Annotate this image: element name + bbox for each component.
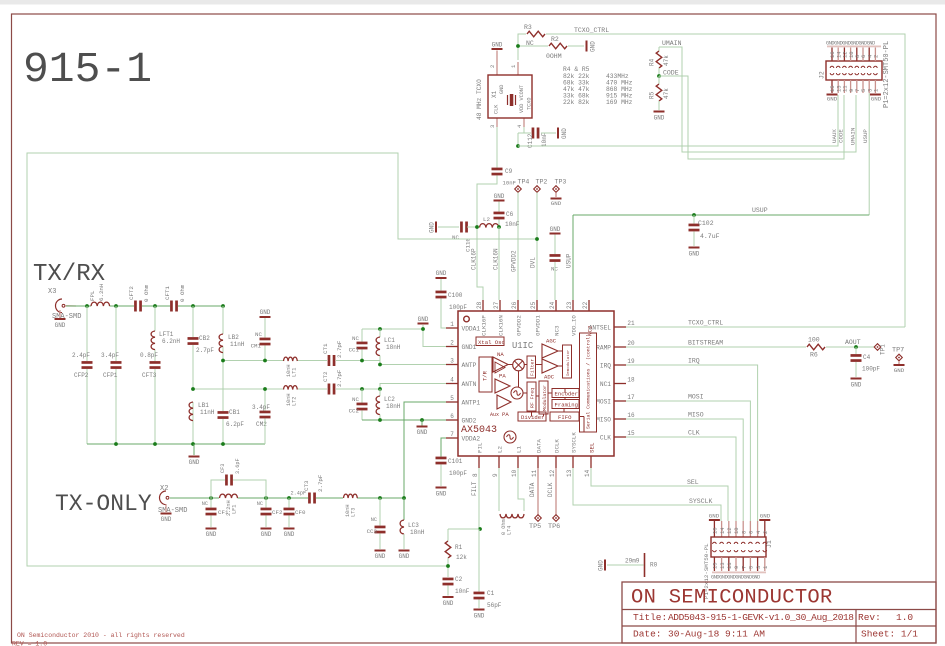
svg-text:LC3: LC3 (408, 522, 419, 529)
capacitor CFT1 (170, 301, 173, 312)
svg-text:LT2: LT2 (292, 397, 298, 406)
svg-text:18: 18 (627, 377, 635, 384)
svg-text:29m9: 29m9 (625, 558, 640, 565)
svg-text:2.7pF: 2.7pF (336, 369, 343, 387)
capacitor CB1 (218, 411, 229, 414)
capacitor CT3 series (308, 493, 311, 504)
svg-text:2.7pF: 2.7pF (336, 340, 343, 358)
capacitor CT2 (328, 384, 331, 395)
svg-text:GND: GND (709, 513, 720, 520)
svg-text:0 Ohm: 0 Ohm (143, 284, 150, 302)
svg-text:NC: NC (257, 501, 263, 507)
svg-text:GND: GND (189, 459, 200, 466)
IC internal demodulator (563, 345, 572, 378)
wire TX/RX input row (66, 305, 91, 307)
svg-text:17: 17 (627, 394, 635, 401)
ground below TP3 (555, 193, 557, 198)
svg-text:GND: GND (436, 491, 447, 498)
inductor LB2 (219, 334, 223, 353)
svg-text:11nH: 11nH (230, 341, 245, 348)
IC U1 AX5043 body (458, 311, 614, 456)
svg-text:0.8pF: 0.8pF (140, 352, 158, 359)
svg-text:UMAIN: UMAIN (850, 127, 857, 145)
svg-text:12k: 12k (456, 554, 467, 561)
svg-text:16: 16 (627, 412, 635, 419)
ground below rail (193, 444, 195, 455)
svg-text:NC: NC (255, 331, 262, 338)
svg-text:CLK16N: CLK16N (498, 315, 505, 336)
svg-text:L1: L1 (516, 446, 523, 453)
svg-text:CC3: CC3 (367, 528, 378, 535)
svg-text:C1: C1 (487, 590, 495, 597)
svg-text:LT1: LT1 (292, 368, 298, 377)
svg-text:DCLK: DCLK (554, 439, 561, 453)
svg-text:RAMP: RAMP (596, 344, 611, 351)
wire UAUX to J2 (518, 95, 838, 146)
svg-text:AGC: AGC (546, 338, 557, 345)
svg-text:ANTP: ANTP (462, 362, 477, 369)
IC internal FIFO block (550, 412, 579, 421)
crystal inside X1 (507, 95, 509, 105)
wire ANTN row (balun) (193, 388, 283, 390)
svg-text:VDD VCONT: VDD VCONT (519, 85, 525, 113)
svg-text:11nH: 11nH (200, 409, 215, 416)
svg-text:12: 12 (726, 527, 733, 534)
capacitor C6 (498, 202, 500, 212)
svg-text:UMAIN: UMAIN (662, 40, 682, 47)
svg-text:LT4: LT4 (507, 526, 513, 535)
IC internal modulator block (539, 381, 548, 414)
capacitor CM2 (264, 389, 266, 411)
svg-text:Title:: Title: (633, 612, 667, 623)
resistor R5 (658, 76, 660, 84)
svg-text:GND: GND (689, 251, 700, 258)
svg-text:26: 26 (511, 301, 518, 309)
svg-text:9: 9 (733, 566, 740, 569)
svg-text:7: 7 (740, 566, 747, 569)
ground below C102 (689, 247, 700, 249)
capacitor CFT2 (134, 301, 137, 312)
svg-text:Demodulator: Demodulator (566, 349, 571, 376)
ground below GND2 rail (421, 420, 423, 426)
svg-text:LC1: LC1 (384, 337, 395, 344)
wire ANTP1 to TX-ONLY (404, 402, 446, 498)
svg-text:P1=2x12-SMT50-PL: P1=2x12-SMT50-PL (883, 41, 891, 108)
svg-text:CF1: CF1 (218, 509, 229, 516)
svg-text:CFT2: CFT2 (128, 286, 135, 300)
svg-text:47k: 47k (663, 55, 670, 66)
svg-text:18nH: 18nH (410, 529, 425, 536)
svg-text:FILT: FILT (471, 481, 478, 496)
svg-text:10nF: 10nF (505, 221, 520, 228)
svg-text:CF2: CF2 (272, 509, 283, 516)
svg-text:LF1: LF1 (232, 505, 238, 514)
wire ANTP row to pin 3 (336, 361, 446, 365)
wire MOSI (626, 401, 750, 521)
svg-text:3.6pF: 3.6pF (235, 458, 241, 474)
svg-text:TP3: TP3 (555, 179, 567, 186)
capacitor CFP2 (82, 361, 93, 364)
wire C9 to CLK16P (477, 176, 497, 301)
wire DVDD loop (27, 153, 537, 566)
svg-text:FIL: FIL (477, 442, 484, 453)
svg-text:GPVDD2: GPVDD2 (516, 315, 523, 336)
inductor LT2 (284, 386, 298, 390)
svg-text:20: 20 (627, 340, 635, 347)
wire shunt column CFP1 (115, 306, 117, 361)
IC internal divider block (518, 412, 546, 421)
svg-text:GND: GND (851, 382, 862, 389)
wire CLK16N column (498, 227, 500, 300)
wire ANTP row (balun) (223, 360, 283, 362)
svg-text:CC2: CC2 (349, 408, 360, 415)
wire USUP from J2 (868, 93, 870, 215)
capacitor C102 (693, 215, 695, 224)
wire C112 to ground (541, 132, 556, 134)
svg-text:CM1: CM1 (251, 343, 262, 350)
svg-text:NA: NA (497, 351, 504, 358)
svg-text:100: 100 (808, 337, 820, 344)
svg-text:GND1: GND1 (462, 344, 477, 351)
capacitor CFP1 (111, 361, 122, 364)
svg-text:R3: R3 (524, 24, 532, 31)
IC internal oscillator (511, 387, 523, 399)
svg-text:DATA: DATA (529, 482, 536, 497)
svg-text:TCXO_CTRL: TCXO_CTRL (688, 320, 723, 327)
wire FIL to C1 (478, 529, 480, 592)
svg-text:NC: NC (352, 396, 359, 403)
svg-text:MOSI: MOSI (596, 398, 611, 405)
svg-text:R6: R6 (810, 352, 818, 359)
wire R2 row (518, 45, 548, 47)
capacitor C112 (532, 128, 535, 139)
svg-text:2: 2 (450, 340, 454, 347)
capacitor C2 (443, 578, 454, 581)
svg-text:TX-ONLY: TX-ONLY (55, 491, 152, 517)
svg-text:CT1: CT1 (322, 343, 329, 354)
svg-text:NC: NC (371, 517, 377, 523)
svg-text:TX/RX: TX/RX (33, 261, 105, 288)
resistor R6 (807, 344, 825, 350)
svg-text:GND: GND (55, 322, 66, 329)
wire X1 CLK to C9 (496, 127, 498, 168)
svg-text:FIFO: FIFO (558, 414, 572, 421)
wire MISO (626, 419, 743, 521)
svg-text:Rev:: Rev: (858, 612, 881, 623)
svg-text:27: 27 (493, 301, 500, 309)
svg-text:GPVDD1: GPVDD1 (535, 315, 542, 336)
capacitor CM1 (NC) (264, 318, 266, 338)
wire TX-ONLY row (170, 497, 219, 499)
testpoint TP1 (874, 344, 881, 351)
wire TP4 / pin26 column (517, 193, 519, 301)
wire CLK (626, 437, 736, 521)
svg-text:GND: GND (654, 115, 665, 122)
svg-text:7: 7 (450, 431, 454, 438)
svg-text:3.4pF: 3.4pF (252, 404, 270, 411)
svg-text:R2: R2 (551, 36, 559, 43)
svg-text:5: 5 (748, 566, 755, 569)
IC internal encoder block (552, 389, 579, 398)
svg-text:CF3: CF3 (220, 464, 226, 473)
svg-text:GND: GND (760, 513, 771, 520)
junction CLK16P row (475, 225, 479, 229)
wire LB2/CB1 column (222, 306, 224, 334)
svg-text:Xtal Osc: Xtal Osc (478, 339, 505, 346)
resistor R4 (658, 47, 660, 51)
capacitor CFT3 (150, 361, 161, 364)
svg-text:GND: GND (598, 560, 605, 571)
svg-text:Date:: Date: (633, 629, 662, 640)
svg-text:L2: L2 (497, 446, 504, 453)
ground below R5 (654, 111, 665, 113)
IC internal T/R switch (479, 357, 492, 392)
wire FIL column (478, 468, 480, 529)
resistor R1 (445, 541, 451, 558)
svg-text:10nF: 10nF (503, 180, 516, 187)
svg-text:6: 6 (748, 531, 755, 534)
svg-text:NC1: NC1 (600, 381, 611, 388)
svg-text:GND: GND (436, 270, 447, 277)
svg-text:48 MHz TCXO: 48 MHz TCXO (476, 79, 483, 120)
wire UMAIN from R4 to J2 (659, 47, 856, 152)
svg-text:CLK: CLK (688, 430, 700, 437)
wire USUP to IC pin 23 (572, 215, 574, 300)
svg-text:18nH: 18nH (386, 344, 401, 351)
svg-text:U1IC: U1IC (512, 341, 533, 351)
resistor R0 (644, 553, 646, 577)
svg-text:Filter: Filter (530, 359, 536, 376)
svg-text:Modulator: Modulator (542, 385, 548, 411)
svg-text:10nF: 10nF (455, 588, 470, 595)
svg-text:CFT1: CFT1 (164, 286, 171, 300)
svg-text:0OHM: 0OHM (546, 53, 562, 60)
svg-text:IRQ: IRQ (600, 362, 611, 369)
svg-text:6.2pF: 6.2pF (226, 421, 244, 428)
svg-text:CF0: CF0 (295, 509, 306, 516)
J2 bottom pin stubs (831, 80, 833, 93)
svg-text:LC2: LC2 (384, 396, 395, 403)
svg-text:47k: 47k (663, 88, 670, 99)
ground left of C110 (435, 222, 437, 233)
svg-text:Serial Communications / (contr: Serial Communications / (control) (586, 334, 592, 429)
svg-text:X1: X1 (491, 90, 498, 98)
svg-text:ON SEMICONDUCTOR: ON SEMICONDUCTOR (631, 587, 833, 610)
svg-text:11: 11 (531, 469, 538, 477)
svg-text:TP1: TP1 (880, 344, 887, 355)
svg-text:R0: R0 (650, 562, 658, 569)
svg-text:NC: NC (352, 335, 359, 342)
svg-text:TCXO_CTRL: TCXO_CTRL (574, 27, 609, 34)
inductor LFT1 (151, 331, 155, 350)
svg-text:5: 5 (450, 395, 454, 402)
svg-text:56pF: 56pF (487, 602, 502, 609)
svg-text:C100: C100 (448, 292, 463, 299)
svg-text:4.7uF: 4.7uF (700, 233, 720, 240)
wire GND to C110 (438, 226, 459, 228)
svg-text:GND: GND (284, 531, 295, 538)
inductor LC3 (403, 498, 405, 520)
svg-text:12: 12 (549, 469, 556, 477)
svg-text:R5: R5 (649, 91, 656, 99)
svg-text:2.7pF: 2.7pF (317, 474, 324, 492)
svg-text:GND: GND (499, 85, 505, 94)
svg-text:6.2nH: 6.2nH (98, 283, 105, 301)
svg-text:GND: GND (551, 200, 562, 207)
resistor R3 (527, 31, 545, 37)
svg-text:6.2nH: 6.2nH (162, 338, 180, 345)
wire CODE to J2 (659, 76, 844, 159)
svg-text:GND: GND (375, 553, 386, 560)
svg-text:R1: R1 (455, 544, 463, 551)
wire RAMP / BITSTREAM (626, 346, 806, 348)
IC internal mixer (513, 359, 525, 371)
svg-text:GND: GND (261, 531, 272, 538)
svg-text:30-Aug-18 9:11 AM: 30-Aug-18 9:11 AM (668, 629, 765, 640)
svg-text:J2: J2 (819, 71, 826, 79)
svg-text:GND: GND (399, 553, 410, 560)
svg-text:C9: C9 (505, 168, 513, 175)
svg-text:ADD5043-915-1-GEVK-v1.0_30_Aug: ADD5043-915-1-GEVK-v1.0_30_Aug_2018 (668, 612, 854, 623)
svg-text:IRQ: IRQ (688, 358, 700, 365)
svg-text:10: 10 (511, 469, 518, 477)
J2 pin sockets (830, 66, 834, 68)
wire shunt column CFT3 (154, 306, 156, 331)
svg-text:CC1: CC1 (349, 347, 360, 354)
wire FIL to R1 (448, 528, 479, 530)
inductor LC1 (379, 329, 381, 337)
capacitor C7 (NC) (554, 235, 556, 255)
svg-text:10: 10 (733, 527, 740, 534)
svg-text:100pF: 100pF (449, 304, 467, 311)
wire USUP rail (573, 214, 869, 216)
svg-text:13: 13 (566, 469, 573, 477)
ground under J2 pin 15 (827, 94, 838, 96)
capacitor C9 (492, 168, 503, 171)
svg-text:DVL: DVL (530, 257, 537, 268)
inductor LF1 (220, 494, 238, 498)
capacitor C4 (855, 347, 857, 354)
svg-text:X3: X3 (48, 288, 56, 296)
svg-text:14: 14 (584, 469, 591, 477)
ground below X3 (59, 310, 61, 318)
svg-text:LB1: LB1 (198, 402, 209, 409)
svg-text:6: 6 (450, 413, 454, 420)
inductor L2 (xtal row) (480, 224, 499, 228)
wire IRQ (626, 365, 758, 521)
svg-text:LT3: LT3 (351, 508, 357, 517)
svg-text:15: 15 (712, 562, 719, 569)
svg-text:REV = 1.0: REV = 1.0 (12, 641, 47, 646)
svg-text:CFT3: CFT3 (142, 372, 157, 379)
wire R3 left / junction column (518, 34, 526, 60)
inductor LT4 (500, 514, 524, 518)
svg-text:SEL: SEL (687, 479, 699, 486)
svg-text:PA: PA (499, 373, 506, 380)
svg-text:18nH: 18nH (386, 403, 401, 410)
svg-text:10nF: 10nF (541, 132, 548, 147)
svg-text:GND: GND (206, 531, 217, 538)
svg-text:C101: C101 (448, 458, 463, 465)
svg-text:TCXO: TCXO (527, 98, 533, 110)
svg-text:C6: C6 (506, 211, 514, 218)
svg-text:CFP1: CFP1 (103, 372, 118, 379)
svg-text:CB2: CB2 (199, 335, 210, 342)
svg-text:ANTP1: ANTP1 (462, 399, 481, 406)
svg-text:GND: GND (827, 96, 838, 103)
svg-text:CT3: CT3 (303, 480, 310, 491)
ground below C2 (443, 596, 454, 598)
testpoint TP5 (537, 468, 539, 515)
wire TX/RX ground rail (87, 443, 265, 445)
capacitor CT1 (328, 355, 331, 366)
svg-text:J1: J1 (766, 540, 773, 548)
svg-text:2: 2 (873, 55, 880, 58)
svg-text:GND: GND (161, 516, 172, 523)
svg-text:8: 8 (472, 473, 479, 477)
svg-text:LB2: LB2 (228, 334, 239, 341)
junction UAUX (516, 144, 520, 148)
svg-text:MOSI: MOSI (688, 394, 704, 401)
capacitor C101 (441, 438, 446, 457)
capacitor CB2 (188, 337, 199, 340)
wire bridge capacitor branch (211, 480, 225, 498)
wire TCXO_CTRL net (546, 34, 905, 327)
IC internal filter block (527, 356, 536, 378)
ground below C1 (474, 609, 485, 611)
IC top pin stubs (482, 300, 484, 311)
wire ANTN row to pin 4 (336, 384, 446, 390)
IC internal connection lines (508, 364, 513, 366)
svg-text:2.4pF: 2.4pF (72, 352, 90, 359)
svg-text:Aux: Aux (490, 412, 499, 418)
svg-text:GND: GND (561, 128, 568, 139)
svg-text:AOUT: AOUT (845, 339, 861, 346)
svg-text:C4: C4 (863, 354, 871, 361)
svg-text:ON Semiconductor 2010 - all ri: ON Semiconductor 2010 - all rights reser… (17, 632, 185, 639)
svg-text:CLK: CLK (494, 104, 500, 114)
IC internal Xtal Osc block (476, 337, 504, 346)
testpoint TP6 (555, 468, 557, 515)
svg-text:C2: C2 (455, 576, 463, 583)
capacitor CC1 (NC) (361, 329, 363, 342)
wire ANTSEL / TCXO_CTRL (626, 326, 905, 328)
svg-text:TP6: TP6 (548, 523, 560, 531)
ground below C4 (851, 378, 862, 380)
wire ANTP shunt rail (362, 328, 423, 330)
svg-text:21: 21 (627, 320, 635, 327)
svg-text:GND: GND (417, 429, 428, 436)
svg-text:Framing: Framing (555, 402, 579, 409)
svg-text:TP2: TP2 (536, 179, 548, 186)
svg-text:GPVDD2: GPVDD2 (511, 250, 518, 272)
svg-text:Sheet: 1/1: Sheet: 1/1 (861, 629, 918, 640)
IC bottom pin stubs (478, 456, 480, 468)
svg-text:GND: GND (418, 316, 429, 323)
svg-text:25: 25 (530, 301, 537, 309)
svg-text:RF Freq: RF Freq (530, 388, 536, 408)
svg-text:MISO: MISO (596, 416, 611, 423)
wire shunt column CFP2 (86, 306, 88, 361)
svg-text:CLK: CLK (600, 434, 611, 441)
inductor FPL (91, 302, 110, 306)
svg-text:CLK16P: CLK16P (471, 248, 478, 270)
svg-text:CFP2: CFP2 (74, 372, 89, 379)
ground below CF0 (284, 528, 295, 530)
svg-text:169 MHz: 169 MHz (606, 99, 633, 106)
ground below CF2 (261, 528, 272, 530)
J1 top pin stubs (721, 521, 723, 537)
